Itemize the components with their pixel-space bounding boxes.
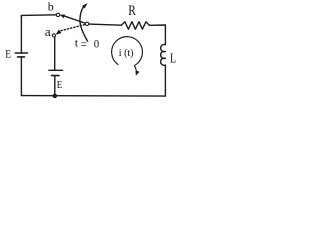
wire inductor to bottom-right corner (164, 65, 166, 96)
battery E1 long plate (15, 52, 27, 54)
svg-text:E: E (5, 49, 11, 61)
switch arm dashed (old position to a) (61, 24, 85, 30)
battery E2 short plate (52, 75, 60, 77)
battery E2 long plate (49, 69, 63, 71)
svg-text:0: 0 (94, 37, 99, 51)
svg-text:t: t (75, 36, 79, 50)
svg-text:=: = (81, 37, 87, 51)
wire bottom rail (21, 95, 165, 98)
battery E1 short plate (18, 56, 25, 58)
arrowhead at contact b (60, 15, 65, 19)
wire middle branch lower (54, 76, 56, 96)
svg-text:R: R (128, 3, 136, 19)
switch arm solid (pivot to b) (64, 16, 86, 24)
inductor L coil (161, 45, 166, 66)
wire top-left (corner to contact b) (21, 15, 56, 53)
wire pivot to resistor (89, 24, 122, 25)
contact b circle (56, 13, 59, 16)
contact a circle (52, 34, 55, 37)
pivot contact circle (85, 22, 88, 25)
junction dot (53, 94, 58, 99)
wire resistor to top-right corner (149, 25, 165, 45)
svg-text:a: a (45, 25, 51, 39)
arrowhead swing arc (82, 3, 88, 8)
switch swing arc t=0 (80, 6, 88, 41)
svg-text:L: L (170, 51, 176, 66)
wire middle branch upper (54, 37, 56, 70)
resistor R zigzag (121, 22, 149, 29)
arrowhead current loop (136, 70, 140, 75)
svg-text:E: E (57, 79, 63, 91)
wire left vertical lower (20, 57, 22, 96)
current loop arc i(t) (112, 37, 143, 74)
arrowhead at contact a (56, 30, 62, 35)
svg-text:i (t): i (t) (119, 48, 134, 59)
svg-text:b: b (48, 0, 54, 14)
